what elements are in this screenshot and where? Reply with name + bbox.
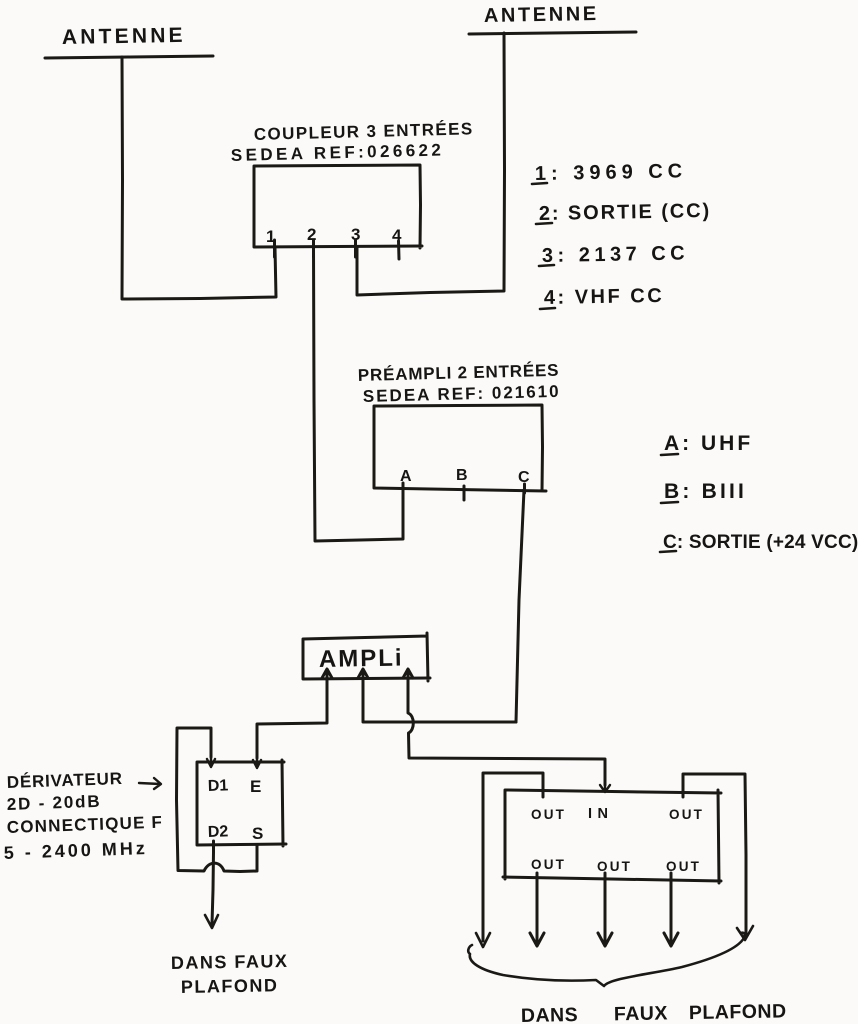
svg-text:CONNECTIQUE F: CONNECTIQUE F bbox=[6, 813, 163, 837]
splitter label OUT top-left bbox=[531, 807, 566, 822]
wire loop S to D1 bbox=[177, 728, 258, 872]
preamp U2 box bbox=[374, 405, 546, 491]
splitter U5 box bbox=[503, 790, 721, 883]
svg-text:OUT: OUT bbox=[597, 859, 632, 874]
coupler U1 title COUPLEUR 3 ENTREES bbox=[254, 119, 474, 144]
svg-text:5 - 2400 MHz: 5 - 2400 MHz bbox=[3, 838, 148, 863]
svg-text:D1: D1 bbox=[208, 777, 229, 795]
coupler pin 2 tick bbox=[312, 240, 315, 257]
preamp pin label B bbox=[456, 467, 468, 484]
svg-text:OUT: OUT bbox=[669, 807, 704, 822]
splitter label OUT bottom-middle bbox=[597, 859, 632, 874]
wire preamp pin C down to amp node bbox=[516, 490, 524, 722]
svg-text:S: S bbox=[252, 824, 263, 843]
svg-text:D2: D2 bbox=[208, 823, 229, 841]
tap-off pin label D2 bbox=[208, 823, 229, 841]
preamp pin B tick bbox=[463, 486, 466, 500]
preamp pin label A bbox=[400, 468, 412, 485]
note DANS FAUX (left) bbox=[171, 951, 289, 973]
amplifier U3 box AMPLI bbox=[303, 633, 430, 681]
svg-text:OUT: OUT bbox=[531, 807, 566, 822]
note 2D-20dB bbox=[6, 792, 101, 814]
note PLAFOND (left) bbox=[181, 975, 279, 997]
coupler pin label 3 bbox=[351, 225, 360, 244]
svg-text:DANS FAUX: DANS FAUX bbox=[171, 951, 289, 973]
note B: BIII bbox=[664, 480, 747, 503]
svg-text:ANTENNE: ANTENNE bbox=[484, 3, 599, 27]
tap-off pin label E bbox=[250, 777, 261, 796]
svg-text:DÉRIVATEUR: DÉRIVATEUR bbox=[6, 769, 123, 792]
note DERIVATEUR bbox=[6, 769, 123, 792]
note 2: SORTIE (CC) bbox=[539, 200, 712, 225]
splitter label OUT bottom-right bbox=[666, 859, 701, 874]
coupler pin label 1 bbox=[266, 227, 275, 246]
wire splitter OUT top-left loop down bbox=[483, 773, 543, 941]
svg-text:A: UHF: A: UHF bbox=[664, 432, 753, 455]
note CONNECTIQUE F bbox=[6, 813, 163, 837]
svg-text:IN: IN bbox=[588, 806, 614, 822]
underline of B bbox=[661, 502, 678, 503]
svg-text:2: SORTIE (CC): 2: SORTIE (CC) bbox=[539, 200, 712, 225]
wire amp pin 2 to node C line bbox=[363, 679, 516, 722]
preamp pin label C bbox=[518, 469, 530, 486]
svg-text:4: 4 bbox=[392, 226, 402, 245]
preamp pin A tick bbox=[402, 483, 405, 497]
tap-off pin label D1 bbox=[208, 777, 229, 795]
svg-text:SEDEA REF:026622: SEDEA REF:026622 bbox=[231, 140, 445, 165]
svg-text:OUT: OUT bbox=[531, 857, 566, 872]
svg-text:2D - 20dB: 2D - 20dB bbox=[6, 792, 101, 814]
coupler pin label 4 bbox=[392, 226, 402, 245]
wire splitter OUT top-right loop down bbox=[683, 774, 746, 934]
arrow after DERIVATEUR bbox=[139, 778, 161, 789]
note 1: 3969 CC bbox=[535, 160, 688, 185]
svg-text:ANTENNE: ANTENNE bbox=[62, 24, 186, 49]
coupler U1 box bbox=[254, 165, 422, 248]
wire antenna 2 down to coupler pin 3 bbox=[357, 33, 505, 295]
note 5-2400 MHz bbox=[3, 838, 148, 863]
splitter bottom OUT arrow 1 bbox=[530, 873, 544, 946]
svg-text:2: 2 bbox=[307, 225, 316, 244]
preamp U2 title PREAMPLI 2 ENTREES bbox=[358, 361, 560, 385]
svg-text:AMPLi: AMPLi bbox=[319, 645, 404, 673]
svg-text:3: 2137 CC: 3: 2137 CC bbox=[542, 242, 690, 267]
splitter label OUT top-right bbox=[669, 807, 704, 822]
svg-text:B: BIII: B: BIII bbox=[664, 480, 747, 503]
arrowhead into E pin bbox=[253, 758, 261, 768]
coupler U1 subtitle SEDEA REF:026622 bbox=[231, 140, 445, 165]
svg-text:PRÉAMPLI 2 ENTRÉES: PRÉAMPLI 2 ENTRÉES bbox=[358, 361, 560, 385]
note DANS FAUX PLAFOND (bottom) bbox=[521, 1000, 787, 1024]
preamp pin C tick bbox=[523, 484, 526, 493]
note A: UHF bbox=[664, 432, 753, 455]
underline of C bbox=[660, 551, 676, 552]
svg-text:1: 3969 CC: 1: 3969 CC bbox=[535, 160, 688, 185]
arrowhead into IN pin bbox=[600, 785, 610, 792]
underline of 4 bbox=[540, 308, 555, 309]
underline of 1 bbox=[532, 183, 547, 184]
splitter bottom OUT arrow 3 bbox=[664, 873, 678, 946]
tap-off pin label S bbox=[252, 824, 263, 843]
brace under arrows bbox=[468, 933, 745, 986]
svg-text:DANSFAUXPLAFOND: DANSFAUXPLAFOND bbox=[521, 1000, 787, 1024]
note 4: VHF CC bbox=[544, 285, 665, 309]
wire antenna 1 down to coupler pin 1 bbox=[122, 57, 276, 299]
wire amp pin 3 down with hop to splitter IN bbox=[408, 679, 605, 785]
note 3: 2137 CC bbox=[542, 242, 690, 267]
coupler pin 4 tick bbox=[397, 241, 401, 259]
underline of A bbox=[661, 454, 678, 455]
tap-off U4 box (derivateur) bbox=[197, 760, 286, 846]
arrowhead into D1 pin bbox=[207, 757, 215, 767]
amp pin 2 arrow up bbox=[358, 669, 368, 686]
wire coupler pin 2 down to preamp pin A bbox=[314, 248, 404, 541]
svg-text:E: E bbox=[250, 777, 261, 796]
amplifier U3 label bbox=[319, 645, 404, 673]
antenna 1 bar bbox=[45, 56, 213, 58]
underline of 3 bbox=[539, 265, 554, 266]
wire D2 output arrow down bbox=[212, 841, 214, 924]
svg-text:B: B bbox=[456, 467, 468, 484]
svg-text:PLAFOND: PLAFOND bbox=[181, 975, 279, 997]
antenna 2 bar bbox=[469, 32, 636, 34]
svg-text:SEDEA REF: 021610: SEDEA REF: 021610 bbox=[363, 382, 561, 406]
splitter bottom OUT arrow 2 bbox=[598, 873, 612, 946]
underline of 2 bbox=[536, 223, 552, 224]
coupler pin label 2 bbox=[307, 225, 316, 244]
splitter label IN bbox=[588, 806, 614, 822]
note C: SORTIE (+24 VCC) bbox=[663, 532, 858, 553]
wire amp pin 1 to splitter E bbox=[257, 679, 327, 758]
amp pin 3 arrow up bbox=[403, 669, 413, 686]
antenna 2 label ANTENNE bbox=[484, 3, 599, 27]
svg-text:C: SORTIE (+24 VCC): C: SORTIE (+24 VCC) bbox=[663, 532, 858, 553]
svg-text:4: VHF CC: 4: VHF CC bbox=[544, 285, 665, 309]
amp pin 1 arrow up bbox=[322, 669, 332, 686]
coupler pin 3 tick bbox=[354, 240, 357, 257]
splitter label OUT bottom-left bbox=[531, 857, 566, 872]
preamp U2 subtitle SEDEA REF:021610 bbox=[363, 382, 561, 406]
arrowhead right loop bbox=[737, 926, 753, 940]
arrowhead left loop bbox=[476, 933, 490, 947]
arrowhead D2 arrow bbox=[205, 915, 218, 928]
coupler pin 1 tick bbox=[273, 240, 276, 257]
antenna 1 label ANTENNE bbox=[62, 24, 186, 49]
